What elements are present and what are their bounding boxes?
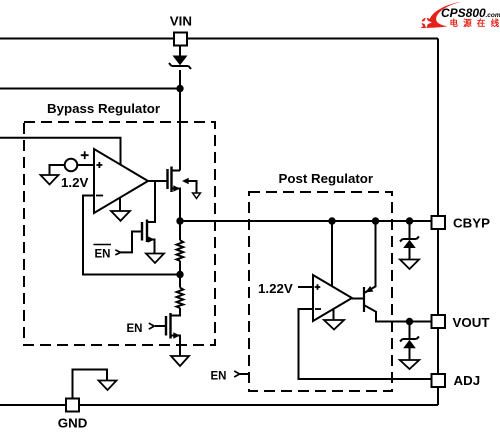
svg-text:电源在线: 电源在线 [450, 18, 500, 28]
svg-text:Bypass Regulator: Bypass Regulator [47, 101, 160, 116]
svg-text:EN: EN [211, 371, 227, 383]
svg-text:1.2V: 1.2V [61, 175, 88, 190]
svg-text:GND: GND [58, 416, 88, 431]
svg-text:VOUT: VOUT [453, 315, 490, 330]
svg-text:EN: EN [95, 249, 111, 261]
svg-text:1.22V: 1.22V [258, 281, 293, 296]
svg-text:Post Regulator: Post Regulator [279, 171, 374, 186]
svg-text:CBYP: CBYP [453, 216, 490, 231]
svg-text:ADJ: ADJ [454, 373, 481, 388]
svg-text:VIN: VIN [170, 14, 192, 29]
svg-text:EN: EN [127, 323, 143, 335]
